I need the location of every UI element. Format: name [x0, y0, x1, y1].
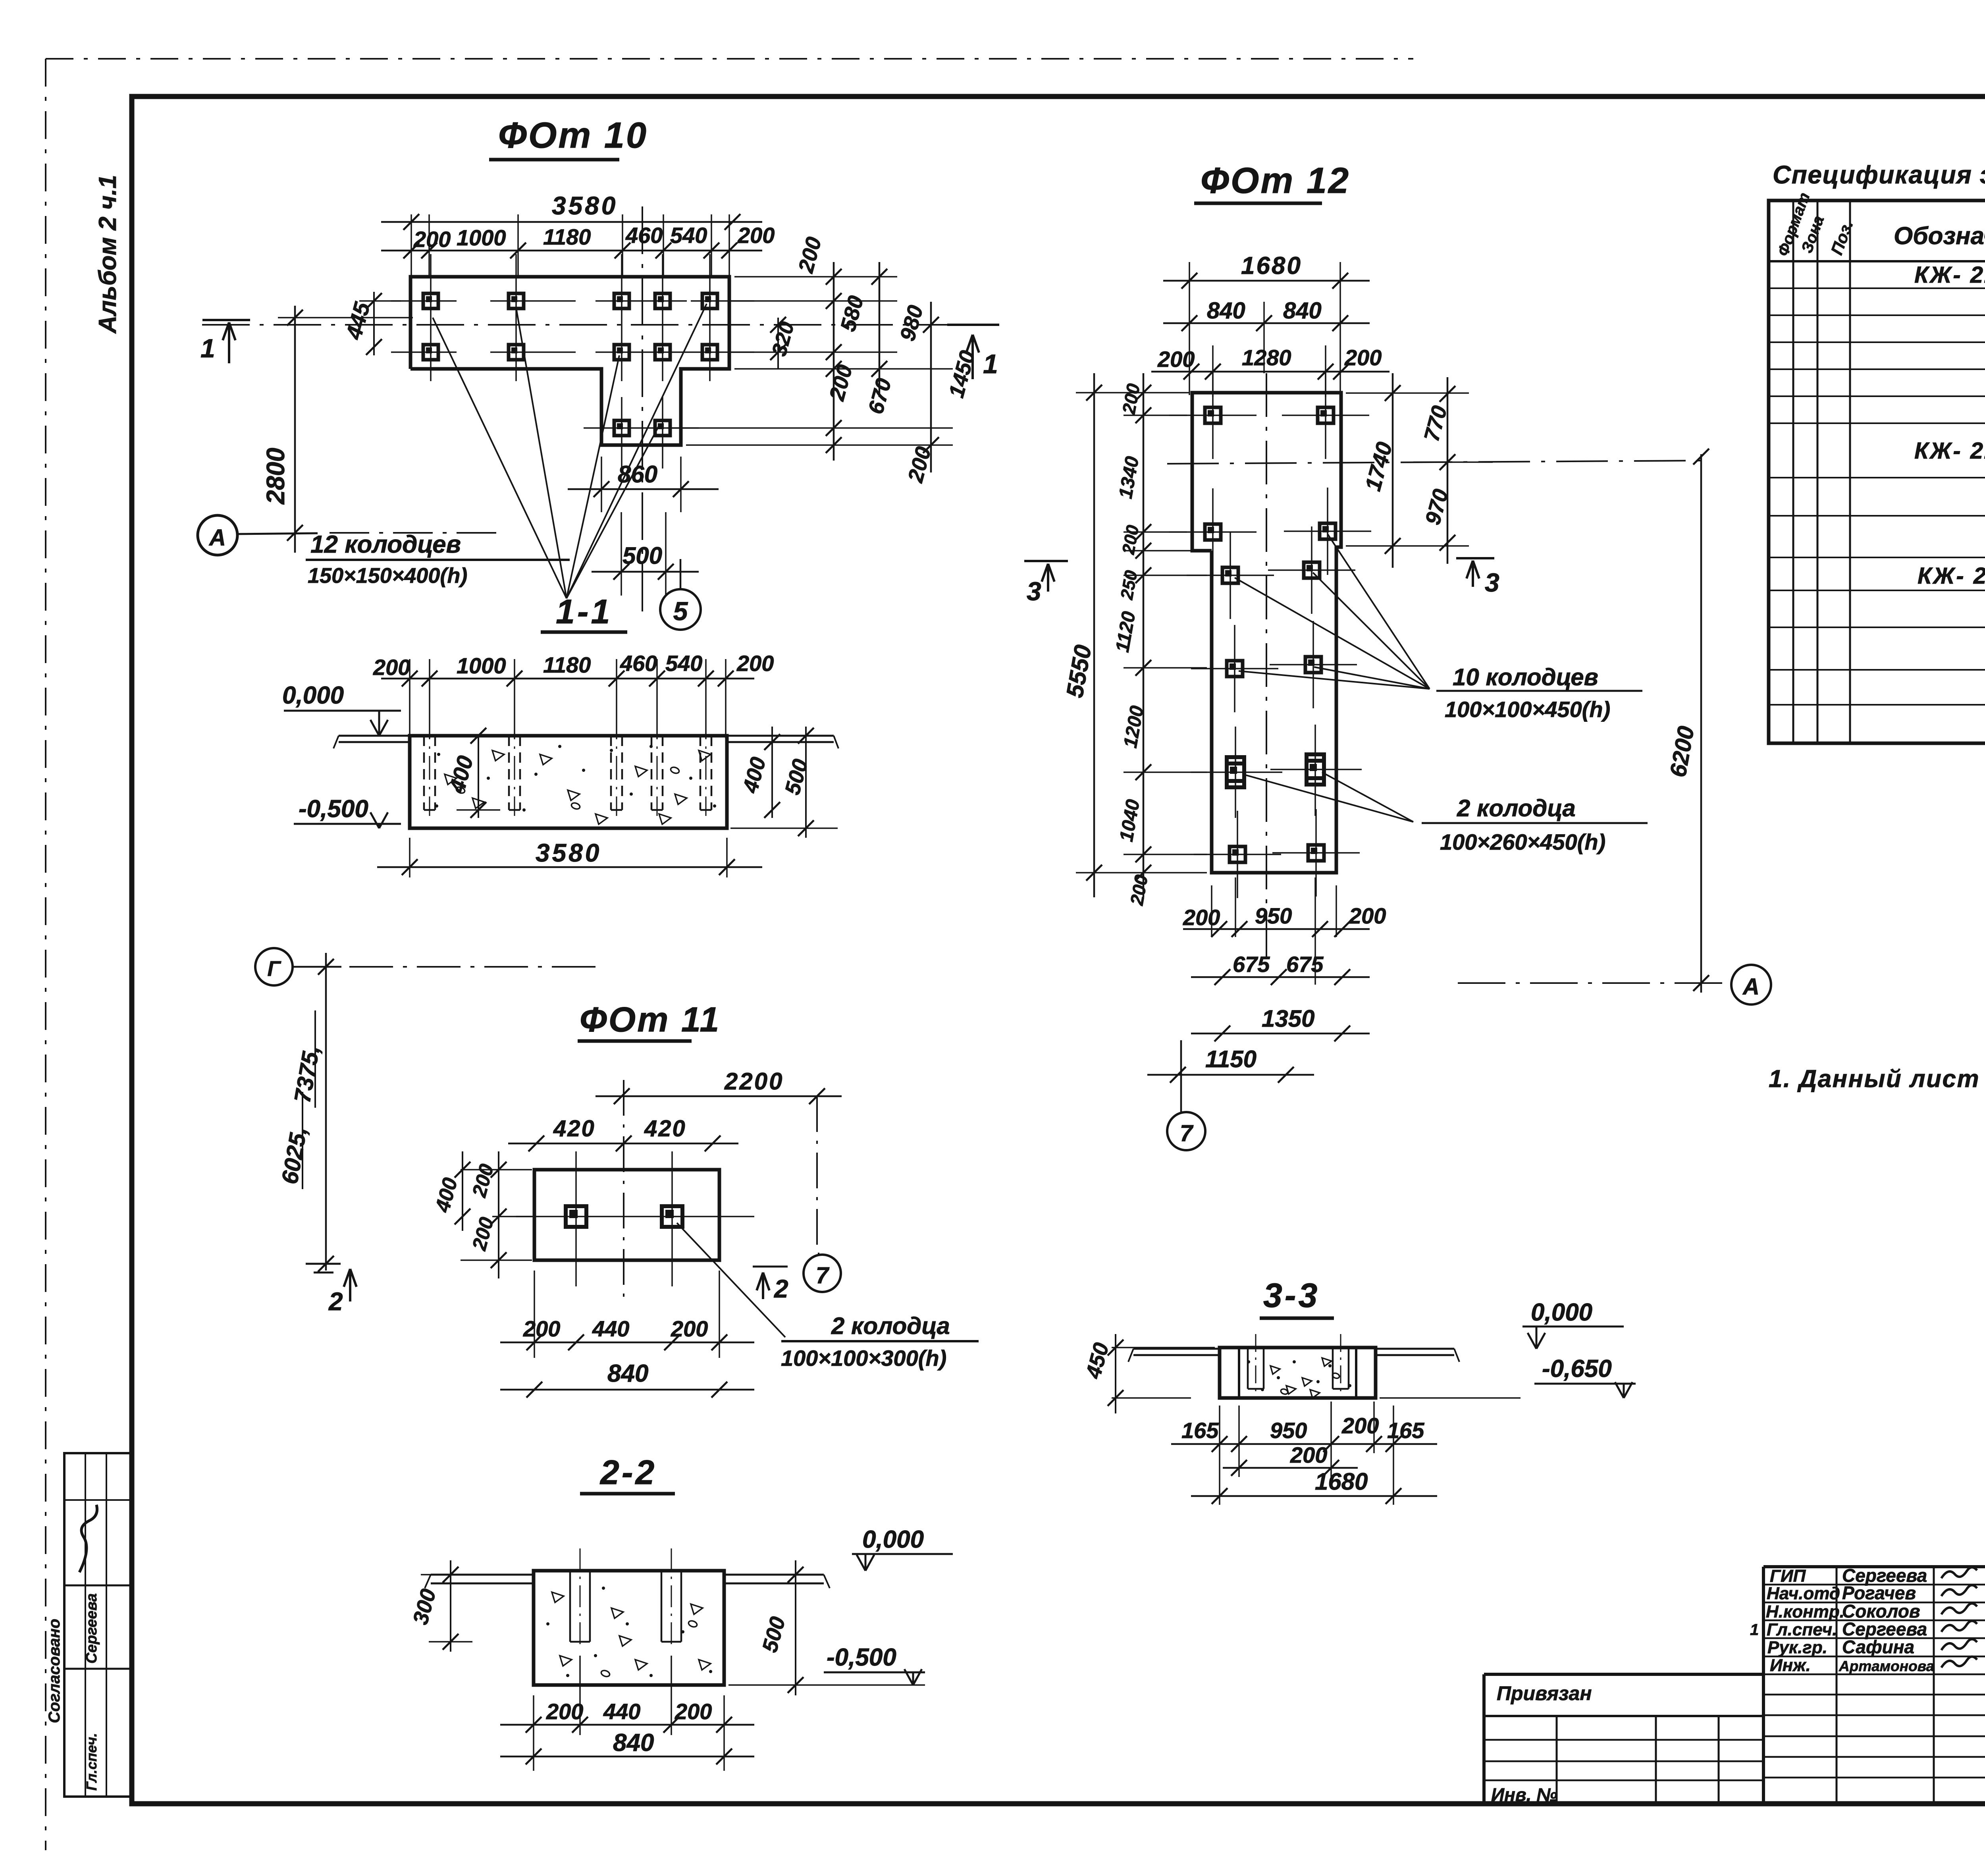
svg-text:КЖ- 22: КЖ- 22	[1914, 262, 1985, 288]
left dims 400/200/200 FOm11	[461, 1169, 532, 1170]
section 1-1 concrete body	[410, 736, 727, 828]
svg-text:980: 980	[896, 303, 928, 344]
svg-text:Привязан: Привязан	[1497, 1682, 1592, 1704]
section mark 2 left	[306, 1263, 341, 1265]
axis 7 line + circle (FOm11)	[816, 1096, 818, 1251]
svg-text:7: 7	[1180, 1120, 1194, 1146]
concrete texture 2-2	[552, 1592, 564, 1602]
svg-text:6025,: 6025,	[277, 1125, 312, 1186]
svg-text:445: 445	[341, 299, 375, 342]
svg-text:1180: 1180	[543, 224, 591, 249]
bottom dim 1680 3-3	[1191, 1495, 1437, 1497]
well K1 FOm11	[566, 1206, 586, 1227]
leader 2 wells FOm11	[677, 1223, 785, 1337]
svg-text:200: 200	[468, 1215, 498, 1253]
centerlines FOm11	[516, 1216, 754, 1217]
svg-text:200: 200	[1126, 873, 1152, 907]
centerline axis A horizontal through FOm10	[202, 324, 999, 326]
svg-text:Артамонова: Артамонова	[1839, 1658, 1934, 1674]
right dims FOm10: extensions	[734, 276, 897, 278]
right dim line 980/1450	[879, 262, 881, 397]
inventory grid	[1556, 1716, 1558, 1805]
svg-text:1040: 1040	[1116, 798, 1144, 843]
well K7 of FOm12	[1227, 661, 1243, 677]
svg-text:950: 950	[1255, 903, 1292, 928]
leader 2 big wells FOm12	[1243, 774, 1413, 822]
svg-text:840: 840	[1283, 298, 1322, 324]
channels section 2-2	[569, 1571, 571, 1642]
axis circle 7 under FOm12	[1180, 1040, 1182, 1112]
section mark 1 left	[202, 319, 250, 321]
well K6 of FOm10	[423, 345, 438, 360]
well K9 of FOm10	[655, 345, 670, 360]
well K5 of FOm10	[702, 293, 717, 308]
svg-text:540: 540	[665, 651, 702, 676]
floor slab left 2-2	[431, 1574, 534, 1576]
right dim line 200/580/200/670	[833, 262, 835, 461]
svg-text:420: 420	[553, 1116, 595, 1141]
bottom dim 1350 FOm12	[1191, 1033, 1370, 1035]
dimension row 200/1000/1180/460/540/200 FOm10	[381, 250, 762, 252]
bottom dim 840 FOm11	[500, 1389, 754, 1391]
svg-text:1120: 1120	[1112, 610, 1140, 654]
svg-text:0,000: 0,000	[1531, 1299, 1592, 1326]
floor slab right 3-3	[1376, 1348, 1454, 1350]
svg-text:-0,500: -0,500	[827, 1644, 896, 1671]
svg-text:200: 200	[546, 1699, 583, 1724]
well K8 of FOm10	[614, 345, 629, 360]
svg-text:840: 840	[607, 1360, 648, 1387]
axis circle A right	[1731, 965, 1771, 1005]
signature table rows	[1763, 1584, 1985, 1586]
bottom dims 675/675 FOm12	[1191, 976, 1370, 978]
svg-text:500: 500	[781, 757, 813, 798]
svg-text:200: 200	[675, 1699, 712, 1724]
svg-text:675: 675	[1233, 952, 1270, 977]
svg-text:0,000: 0,000	[862, 1526, 924, 1553]
svg-text:1350: 1350	[1262, 1005, 1314, 1032]
well K10 of FOm10	[702, 345, 717, 360]
svg-text:Инв. №: Инв. №	[1491, 1784, 1557, 1805]
svg-text:3580: 3580	[536, 839, 601, 867]
bottom dim 200 3-3	[1223, 1467, 1358, 1469]
axis line horizontal FOm12 (to 6200 dim)	[1167, 461, 1703, 464]
bottom dim 840 2-2	[500, 1756, 754, 1758]
svg-text:1: 1	[200, 334, 215, 363]
svg-text:2200: 2200	[724, 1068, 784, 1095]
svg-text:2 колодца: 2 колодца	[831, 1313, 950, 1339]
section mark 2 right	[753, 1266, 788, 1268]
svg-text:860: 860	[618, 461, 657, 488]
well K2 of FOm12	[1318, 407, 1334, 423]
stem dim 500	[621, 512, 622, 596]
concrete texture section 1-1	[445, 774, 457, 785]
well K2 FOm11	[662, 1206, 682, 1227]
well row/column thin lines FOm12	[1169, 415, 1257, 416]
svg-text:200: 200	[736, 651, 774, 676]
svg-text:Согласовано: Согласовано	[46, 1619, 63, 1723]
signature table columns	[1836, 1567, 1838, 1805]
section mark 3 right	[1456, 557, 1494, 559]
big well 100x260 right FOm12	[1307, 761, 1324, 778]
svg-text:Спецификация элементов монол: Спецификация элементов монолитной констр…	[1773, 160, 1985, 189]
floor slab right 2-2	[724, 1574, 824, 1576]
svg-text:1000: 1000	[457, 225, 506, 250]
right dim 1740 FOm12	[1392, 373, 1394, 568]
big well 100x260 left FOm12	[1227, 764, 1244, 781]
svg-text:200: 200	[1183, 905, 1220, 930]
svg-text:200: 200	[737, 223, 775, 248]
svg-text:400: 400	[738, 755, 771, 796]
svg-text:1: 1	[1750, 1621, 1759, 1639]
bottom dim 1150 FOm12	[1147, 1074, 1314, 1076]
detail circle 5	[680, 559, 682, 589]
svg-text:200: 200	[671, 1316, 708, 1341]
svg-text:КЖ- 22: КЖ- 22	[1914, 438, 1985, 464]
svg-text:Поз.: Поз.	[1827, 218, 1857, 257]
svg-text:200: 200	[1344, 345, 1382, 370]
svg-text:675: 675	[1286, 952, 1324, 977]
signature squiggle	[79, 1505, 97, 1572]
well K1 of FOm12	[1205, 407, 1221, 423]
well K10 of FOm12	[1308, 845, 1324, 861]
svg-text:165: 165	[1181, 1418, 1219, 1443]
svg-text:1: 1	[983, 349, 998, 379]
bottom dims 165/950/200/165 3-3	[1219, 1406, 1220, 1505]
well K6 of FOm12	[1304, 562, 1320, 578]
svg-text:Н.контр.: Н.контр.	[1766, 1602, 1844, 1621]
svg-text:300: 300	[409, 1587, 441, 1627]
foundation FOm12 outline	[1192, 393, 1341, 873]
svg-text:450: 450	[1081, 1340, 1114, 1382]
bottom dims 200/440/200 2-2	[533, 1695, 534, 1771]
svg-text:ФОт 12: ФОт 12	[1201, 160, 1350, 201]
concrete texture 3-3	[1270, 1366, 1280, 1374]
well K3 of FOm12	[1205, 524, 1221, 540]
svg-text:540: 540	[670, 223, 707, 248]
FOm11 slab outline	[534, 1170, 719, 1260]
svg-text:1000: 1000	[457, 653, 506, 678]
svg-text:200: 200	[1118, 382, 1144, 416]
svg-text:200: 200	[794, 235, 826, 276]
svg-text:0,000: 0,000	[282, 682, 344, 709]
bottom dims 200/950/200 FOm12	[1211, 885, 1212, 937]
svg-text:100×100×450(h): 100×100×450(h)	[1445, 697, 1610, 722]
well K12 of FOm10	[655, 420, 670, 436]
svg-text:400: 400	[444, 753, 478, 796]
svg-text:200: 200	[1349, 903, 1386, 928]
svg-text:100×100×300(h): 100×100×300(h)	[781, 1346, 946, 1371]
svg-text:1. Данный лист см. совместно: 1. Данный лист см. совместно с листами К…	[1769, 1065, 1985, 1093]
svg-text:Инж.: Инж.	[1770, 1656, 1811, 1675]
svg-text:Гл.спеч.: Гл.спеч.	[1767, 1620, 1837, 1639]
svg-text:Нач.отд: Нач.отд	[1767, 1584, 1840, 1603]
svg-text:1-1: 1-1	[556, 593, 612, 631]
svg-text:440: 440	[592, 1316, 629, 1341]
svg-text:500: 500	[758, 1614, 790, 1655]
svg-text:1680: 1680	[1315, 1468, 1368, 1495]
floor slab lines right	[727, 735, 834, 737]
svg-text:1740: 1740	[1360, 439, 1397, 494]
svg-text:Г: Г	[267, 957, 281, 981]
right dims 400/500 section 1-1	[771, 727, 773, 818]
svg-text:200: 200	[903, 444, 936, 486]
svg-text:500: 500	[622, 542, 662, 569]
well K5 of FOm12	[1222, 567, 1238, 583]
bottom dim 3580 section 1-1	[409, 838, 410, 877]
svg-text:150×150×400(h): 150×150×400(h)	[308, 564, 467, 588]
spec table grid	[1769, 201, 1985, 743]
stem dim 860	[601, 457, 602, 512]
well K9 of FOm12	[1230, 846, 1245, 862]
axis line to circle A right	[1458, 982, 1730, 984]
left dim 445 FOm10	[359, 300, 401, 302]
svg-text:Обозначение: Обозначение	[1894, 222, 1985, 250]
section 2-2 concrete body	[534, 1571, 724, 1685]
section 3-3 body	[1220, 1348, 1376, 1398]
well K4 of FOm10	[655, 293, 670, 308]
svg-text:12 колодцев: 12 колодцев	[310, 531, 461, 558]
svg-text:2-2: 2-2	[599, 1454, 657, 1492]
svg-text:5: 5	[673, 596, 688, 626]
dim 320 small	[777, 318, 779, 369]
svg-text:Сафина: Сафина	[1842, 1637, 1914, 1657]
svg-text:3: 3	[1485, 568, 1499, 597]
axis circle G	[255, 948, 293, 985]
leader 12 wells FOm10	[433, 318, 567, 598]
dim 300 left 2-2	[421, 1574, 451, 1575]
extension lines left FOm12	[1076, 392, 1189, 393]
svg-text:840: 840	[1207, 298, 1245, 324]
well K4 of FOm12	[1320, 523, 1336, 539]
svg-text:ФОт 10: ФОт 10	[498, 115, 648, 156]
extension lines above FOm10	[410, 214, 412, 278]
svg-text:200: 200	[523, 1316, 560, 1341]
svg-text:3-3: 3-3	[1263, 1276, 1320, 1315]
svg-text:Рук.гр.: Рук.гр.	[1767, 1638, 1827, 1657]
svg-text:1280: 1280	[1242, 345, 1291, 370]
svg-text:Гл.спеч.: Гл.спеч.	[83, 1733, 100, 1791]
floor slab lines left	[339, 735, 410, 737]
svg-text:440: 440	[603, 1699, 640, 1724]
svg-text:5550: 5550	[1061, 643, 1097, 700]
svg-text:ФОт 11: ФОт 11	[580, 1000, 721, 1039]
svg-text:Сергеева: Сергеева	[83, 1593, 100, 1664]
svg-text:460: 460	[620, 651, 657, 676]
svg-text:2: 2	[328, 1287, 343, 1316]
stem vertical centerline FOm10	[642, 206, 643, 619]
svg-text:2800: 2800	[261, 448, 290, 505]
svg-text:460: 460	[625, 223, 663, 248]
channels (dashed wells) in section 1-1	[423, 736, 425, 810]
well K1 of FOm10	[423, 293, 438, 308]
svg-text:250: 250	[1117, 569, 1141, 601]
svg-text:10 колодцев: 10 колодцев	[1453, 664, 1598, 690]
svg-text:100×260×450(h): 100×260×450(h)	[1440, 829, 1605, 854]
dimension 3580 top of FOm10	[381, 221, 762, 223]
vertical dim 7375/6025	[325, 953, 327, 1271]
svg-text:400: 400	[431, 1175, 462, 1215]
bottom extension column lines FOm12	[1235, 877, 1236, 937]
svg-text:3: 3	[1027, 576, 1041, 606]
privyazan box	[1484, 1673, 1763, 1676]
right dim 770/970 FOm12	[1447, 377, 1449, 564]
axis circle A left	[198, 515, 237, 555]
dim 6200 vertical	[1700, 454, 1702, 993]
svg-text:1450: 1450	[944, 348, 980, 401]
svg-text:1680: 1680	[1241, 252, 1302, 280]
svg-text:7375,: 7375,	[289, 1043, 325, 1105]
svg-text:Альбом 2 ч.1: Альбом 2 ч.1	[94, 175, 121, 334]
svg-text:-0,650: -0,650	[1542, 1355, 1612, 1382]
bottom dims 200/440/200 FOm11	[534, 1271, 535, 1358]
section mark 1 right	[947, 324, 999, 326]
left dim chain 5550 FOm12	[1093, 373, 1095, 897]
svg-text:200: 200	[1341, 1413, 1379, 1438]
svg-text:200: 200	[373, 655, 410, 680]
svg-text:840: 840	[613, 1729, 654, 1756]
svg-text:Рогачев: Рогачев	[1842, 1583, 1916, 1603]
well K3 of FOm10	[614, 293, 629, 308]
signature squiggles	[1941, 1567, 1977, 1578]
svg-text:1180: 1180	[543, 652, 591, 677]
svg-text:200: 200	[1290, 1442, 1327, 1467]
svg-text:950: 950	[1270, 1418, 1307, 1443]
svg-text:1150: 1150	[1205, 1046, 1257, 1072]
thin lines through well rows FOm10	[391, 300, 457, 302]
svg-text:580: 580	[836, 293, 868, 334]
leader 10 wells FOm12	[1328, 534, 1430, 689]
svg-text:200: 200	[413, 227, 451, 252]
left dim 2800 FOm10	[294, 306, 296, 553]
dim 400 inside section 1-1	[478, 736, 479, 818]
well K7 of FOm10	[509, 345, 524, 360]
section mark 3 left	[1024, 560, 1068, 562]
svg-text:165: 165	[1387, 1418, 1424, 1443]
svg-text:1340: 1340	[1115, 455, 1143, 500]
well K8 of FOm12	[1305, 657, 1321, 673]
section 1-1 top dims	[381, 678, 754, 680]
dim 500 right 2-2	[728, 1684, 925, 1686]
channels 3-3	[1247, 1348, 1249, 1389]
floor slab left 3-3	[1133, 1348, 1220, 1350]
svg-text:ГИП: ГИП	[1770, 1566, 1806, 1586]
svg-text:2 колодца: 2 колодца	[1457, 795, 1576, 821]
svg-text:6200: 6200	[1665, 724, 1699, 779]
thin column lines FOm10	[430, 254, 432, 381]
dim 450 left 3-3	[1112, 1347, 1215, 1348]
outer dashed margin line top	[46, 58, 1413, 60]
svg-text:КЖ- 22: КЖ- 22	[1918, 563, 1985, 589]
svg-text:7: 7	[816, 1263, 830, 1288]
svg-text:420: 420	[644, 1116, 686, 1141]
extension verticals above FOm12	[1189, 262, 1190, 395]
svg-text:-0,500: -0,500	[299, 795, 368, 823]
foundation FOm10 outline (T-shape)	[410, 277, 729, 445]
centerline vertical FOm12	[1266, 373, 1267, 961]
svg-text:2: 2	[774, 1274, 788, 1303]
svg-text:А: А	[1742, 974, 1760, 1000]
left margin approval table	[64, 1453, 132, 1797]
svg-text:200: 200	[468, 1162, 498, 1200]
well K11 of FOm10	[614, 420, 629, 436]
left dim chain segments FOm12	[1143, 373, 1145, 897]
well K2 of FOm10	[509, 293, 524, 308]
outer dashed margin line left	[45, 59, 46, 1850]
svg-text:А: А	[208, 525, 226, 551]
svg-text:3580: 3580	[552, 191, 618, 220]
